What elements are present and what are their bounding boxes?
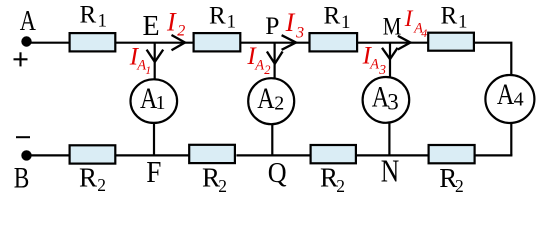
- wire A1 to node F: [153, 123, 155, 156]
- svg-text:2: 2: [336, 176, 345, 196]
- svg-text:2: 2: [455, 176, 464, 196]
- ammeter A1: [131, 79, 178, 123]
- svg-text:P: P: [265, 11, 279, 40]
- current label IA1: [129, 44, 151, 77]
- current arrow IA2 (down): [267, 52, 283, 64]
- svg-text:3: 3: [378, 62, 386, 77]
- wire R2c to R2d through node N: [357, 154, 429, 156]
- svg-text:1: 1: [98, 11, 108, 32]
- terminal A dot: [21, 36, 31, 46]
- wire R1b to R1c through node P: [240, 42, 309, 44]
- svg-text:I: I: [404, 6, 414, 31]
- current label I2: [166, 8, 185, 40]
- svg-text:1: 1: [145, 65, 151, 77]
- svg-text:R: R: [79, 163, 97, 193]
- svg-text:1: 1: [458, 12, 468, 33]
- current arrow I3 (right): [282, 35, 296, 50]
- current arrow IA1 (down): [147, 50, 164, 62]
- ammeter A3: [363, 77, 410, 123]
- current label IA2: [246, 43, 270, 77]
- svg-text:R: R: [209, 2, 226, 29]
- wire R1d to right corner down to A4: [475, 43, 512, 77]
- ammeter A4: [485, 75, 534, 123]
- minus symbol: [16, 136, 30, 138]
- svg-text:E: E: [143, 11, 160, 42]
- svg-text:2: 2: [274, 93, 284, 115]
- wire A2 to node Q: [271, 124, 273, 155]
- resistor R1 (second, top): [194, 33, 241, 51]
- resistor R1 (first, top): [70, 33, 116, 51]
- current arrow I2 (right): [172, 35, 186, 50]
- svg-text:Q: Q: [268, 156, 287, 189]
- svg-text:A: A: [257, 82, 275, 115]
- svg-text:4: 4: [421, 26, 427, 40]
- svg-text:N: N: [381, 154, 400, 189]
- svg-text:B: B: [14, 161, 30, 194]
- terminal B dot: [21, 150, 31, 160]
- svg-text:3: 3: [295, 24, 304, 41]
- junction M wire down to ammeter A3: [389, 43, 391, 79]
- current label IA4: [404, 6, 428, 40]
- wire bottom rail B to R2a: [27, 154, 70, 156]
- wire R2a to R2b through node F: [116, 154, 190, 156]
- svg-text:1: 1: [341, 12, 351, 33]
- svg-text:2: 2: [264, 63, 270, 77]
- svg-text:I: I: [166, 8, 177, 37]
- svg-text:R: R: [441, 2, 458, 29]
- resistor R1 (third, top): [310, 33, 358, 51]
- wire R2d to right corner: [475, 154, 513, 156]
- wire R2b to R2c through node Q: [236, 154, 310, 156]
- svg-text:F: F: [146, 156, 161, 190]
- plus symbol: [14, 52, 28, 66]
- svg-text:1: 1: [156, 92, 166, 114]
- wire R1c to R1d through node M: [357, 42, 428, 44]
- svg-text:I: I: [285, 8, 296, 37]
- resistor R2 (second, bottom): [189, 145, 235, 163]
- ammeter A2: [248, 78, 294, 124]
- resistor R2 (third, bottom): [311, 145, 356, 163]
- junction E wire down to ammeter A1: [154, 43, 156, 80]
- svg-text:A: A: [20, 6, 37, 37]
- junction P wire down to ammeter A2: [274, 43, 276, 80]
- wire top rail A to R1a: [27, 42, 71, 44]
- svg-text:A: A: [254, 57, 264, 73]
- svg-text:2: 2: [218, 176, 227, 196]
- wire A4 to bottom rail: [510, 123, 512, 155]
- svg-text:A: A: [369, 56, 379, 72]
- current arrow IA4 (right): [398, 36, 411, 50]
- wire R1a to R1b through node E: [115, 42, 193, 44]
- svg-text:2: 2: [177, 23, 185, 40]
- svg-text:R: R: [80, 2, 97, 29]
- svg-text:R: R: [324, 3, 341, 30]
- svg-text:1: 1: [227, 12, 237, 33]
- current label I3: [285, 8, 305, 41]
- svg-text:4: 4: [514, 89, 524, 111]
- resistor R2 (first, bottom): [70, 145, 116, 163]
- current label IA3: [362, 43, 387, 77]
- svg-text:A: A: [497, 78, 515, 111]
- resistor R1 (fourth, top): [428, 33, 474, 51]
- svg-text:2: 2: [97, 175, 106, 195]
- wire A3 to node N: [388, 123, 390, 155]
- resistor R2 (fourth, bottom): [429, 145, 475, 163]
- current arrow IA3 (down): [382, 48, 398, 59]
- svg-text:3: 3: [387, 90, 399, 115]
